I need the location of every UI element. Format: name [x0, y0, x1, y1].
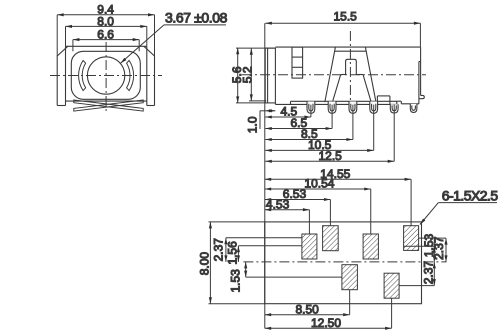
raised tab between pin4 and pin5: [376, 96, 378, 101]
svg-text:1.56: 1.56: [225, 241, 239, 265]
svg-text:8.0: 8.0: [97, 14, 114, 28]
dim 10.54: [265, 189, 371, 234]
svg-text:8.50: 8.50: [296, 302, 320, 316]
switch bump: [346, 59, 357, 74]
center lines: [50, 42, 162, 114]
pin 3: [349, 102, 357, 114]
dim 10.5: [265, 105, 373, 151]
bottom edge: [66, 100, 147, 102]
jack body rounded square: [71, 51, 140, 99]
barrel: [265, 48, 275, 103]
dim 12.50: [265, 298, 392, 328]
outer trapezoid: [325, 47, 376, 102]
dim 9.4: [57, 15, 154, 56]
pin 4: [370, 102, 378, 114]
inner trapezoid: [332, 75, 371, 103]
dim 12.5: [265, 105, 394, 162]
dim 8.00: [209, 222, 265, 304]
svg-text:1.53: 1.53: [229, 269, 243, 293]
dim 1.53 right up: [433, 246, 435, 262]
pad 4 hatched: [404, 226, 419, 251]
pins 1-4: [307, 102, 417, 114]
dim 1.0: [260, 111, 275, 129]
svg-text:2.37: 2.37: [432, 236, 446, 260]
dim 8.50: [265, 290, 350, 315]
svg-text:1.0: 1.0: [246, 116, 260, 133]
svg-text:3.67 ±0.08: 3.67 ±0.08: [165, 10, 228, 26]
svg-text:12.50: 12.50: [311, 316, 341, 330]
dim 6.53: [265, 200, 331, 226]
dim 6.6: [73, 40, 139, 52]
svg-text:2.37: 2.37: [421, 261, 435, 285]
dim 8.0: [66, 26, 147, 46]
svg-text:6.6: 6.6: [97, 27, 114, 41]
crossed leg B: [74, 100, 143, 111]
outline: [265, 222, 422, 304]
pad 1 hatched: [302, 234, 317, 259]
dim 1.53 left: [246, 262, 342, 277]
dim 4.5: [265, 105, 311, 117]
contact arcs right: [127, 60, 134, 90]
crossed legs: [74, 100, 143, 111]
dim 14.55: [265, 179, 411, 225]
chamfer left: [57, 46, 68, 56]
pad 5 hatched: [342, 265, 358, 290]
body top: [275, 46, 420, 48]
top edge: [66, 45, 147, 47]
dim 2.37 right low: [433, 262, 435, 286]
dim 2.37 right up: [445, 238, 447, 262]
contact arcs left: [79, 60, 86, 90]
pin 2: [328, 102, 336, 114]
pad 6 hatched: [384, 273, 399, 298]
dim 8.5: [265, 105, 353, 140]
dim 1.56 left: [238, 246, 302, 262]
right edge: [420, 47, 422, 95]
body outer: [57, 46, 154, 105]
chamfer right: [144, 46, 155, 56]
right flange: [154, 56, 156, 106]
pin 6: [410, 104, 417, 113]
center line: [243, 261, 446, 263]
pin 5: [390, 104, 398, 113]
pad 2 hatched: [323, 226, 339, 251]
svg-text:2.37: 2.37: [212, 238, 226, 262]
svg-text:10.54: 10.54: [304, 177, 334, 191]
svg-text:6-1.5X2.5: 6-1.5X2.5: [442, 188, 499, 204]
jack bore circle: [87, 57, 124, 94]
leader lines: [399, 238, 446, 286]
dim 6.5: [265, 105, 332, 129]
divided box: [292, 47, 303, 78]
dim 2.37 left: [226, 238, 302, 262]
callout 6-1.5X2.5: [420, 203, 497, 225]
svg-text:4.53: 4.53: [266, 197, 290, 211]
svg-text:8.00: 8.00: [197, 252, 211, 276]
body bottom skirt: [275, 103, 397, 105]
long left extension line: [264, 23, 266, 328]
crossed leg A: [74, 100, 143, 111]
dims 5.6 / 5.2: [236, 48, 275, 103]
svg-text:12.5: 12.5: [319, 149, 343, 163]
dim 4.53: [265, 210, 310, 234]
pad 3 hatched: [363, 234, 378, 259]
callout 3.67: [121, 25, 227, 63]
right foot hook: [419, 95, 424, 98]
pin 1: [307, 102, 315, 114]
svg-text:15.5: 15.5: [334, 9, 358, 23]
dim 15.5: [265, 23, 420, 47]
pads: [302, 226, 419, 299]
center lines: [242, 31, 426, 107]
left flange: [56, 56, 58, 106]
